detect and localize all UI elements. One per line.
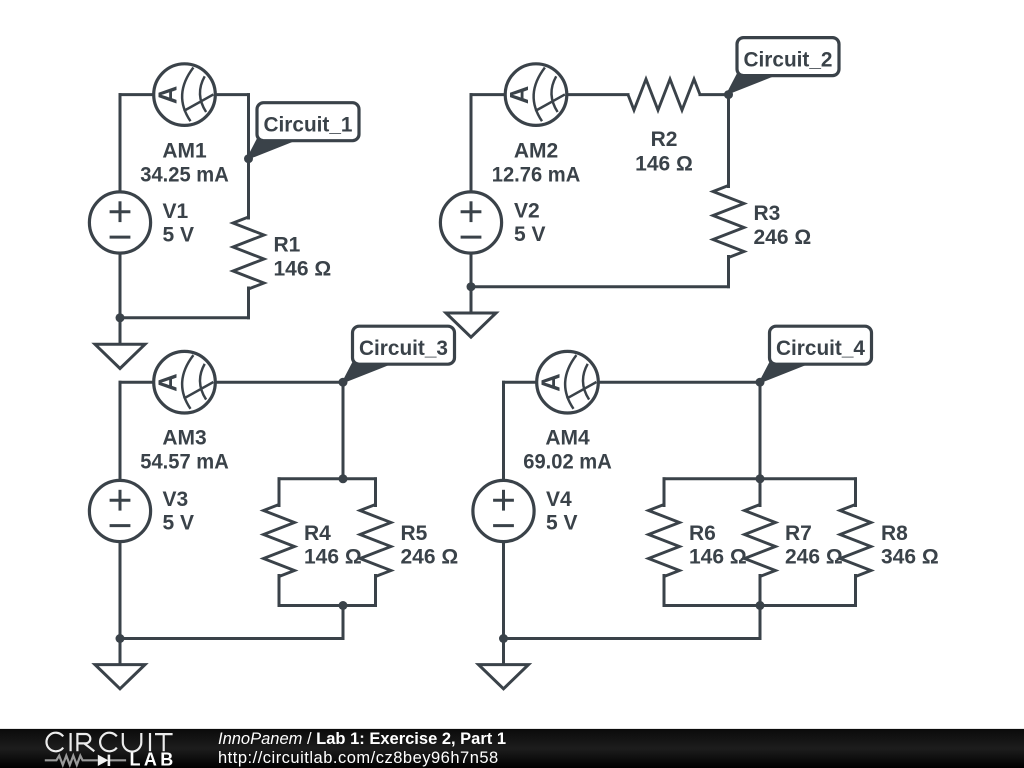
junction node bank top node <box>756 474 765 483</box>
svg-text:146 Ω: 146 Ω <box>304 546 362 569</box>
svg-text:Circuit_4: Circuit_4 <box>776 336 865 360</box>
net flag Circuit_1 <box>248 103 360 159</box>
diode symbol in logo <box>98 755 109 766</box>
wire R1 bottom lead <box>247 288 250 318</box>
wire R6 bottom lead <box>663 576 666 606</box>
svg-text:R2: R2 <box>651 128 678 151</box>
svg-text:R5: R5 <box>401 522 428 545</box>
svg-text:69.02 mA: 69.02 mA <box>523 451 612 474</box>
ground for circuit 3 <box>95 665 145 689</box>
svg-text:http://circuitlab.com/cz8bey96: http://circuitlab.com/cz8bey96h7n58 <box>218 749 499 767</box>
svg-text:V2: V2 <box>514 200 540 223</box>
svg-text:146 Ω: 146 Ω <box>635 153 693 176</box>
ammeter AM3 <box>154 351 216 413</box>
svg-text:InnoPanem / Lab 1: Exercise 2,: InnoPanem / Lab 1: Exercise 2, Part 1 <box>218 730 506 748</box>
wire left of circuit 1 <box>119 95 122 345</box>
svg-text:V1: V1 <box>163 200 189 223</box>
svg-text:A: A <box>537 373 565 391</box>
svg-text:146 Ω: 146 Ω <box>689 546 747 569</box>
wire bottom of circuit 4 <box>504 637 761 640</box>
svg-text:R1: R1 <box>274 234 301 257</box>
svg-text:246 Ω: 246 Ω <box>785 546 843 569</box>
svg-text:V4: V4 <box>546 488 572 511</box>
svg-text:R4: R4 <box>304 522 331 545</box>
wire left of circuit 3 <box>119 382 122 664</box>
voltage source V3 <box>89 480 150 541</box>
resistor R6 <box>649 505 680 577</box>
svg-text:AM2: AM2 <box>514 139 558 162</box>
wire top bracket of R6 R7 R8 <box>664 477 856 480</box>
wire node to R3 top <box>727 95 730 187</box>
resistor R5 <box>360 505 391 577</box>
junction node V1- to ground <box>116 313 125 322</box>
wire left of circuit 2 <box>470 95 473 313</box>
wire left of circuit 4 <box>502 382 505 664</box>
ground for circuit 1 <box>95 344 145 368</box>
svg-text:R6: R6 <box>689 522 716 545</box>
svg-text:146 Ω: 146 Ω <box>274 258 332 281</box>
svg-text:246 Ω: 246 Ω <box>401 546 459 569</box>
junction node Circuit_4 node <box>756 378 765 387</box>
wire top of circuit 1 <box>120 93 249 96</box>
resistor R1 <box>233 217 264 289</box>
svg-text:A: A <box>154 373 182 391</box>
voltage source V4 <box>473 480 534 541</box>
wire top of circuit 4 <box>504 381 761 384</box>
svg-text:5 V: 5 V <box>514 223 546 246</box>
junction node Circuit_3 node <box>339 378 348 387</box>
junction node Circuit_1 node <box>244 154 253 163</box>
svg-text:R8: R8 <box>881 522 908 545</box>
wire bank to bottom wire <box>759 606 762 639</box>
resistor R3 <box>713 186 744 258</box>
svg-text:Circuit_1: Circuit_1 <box>264 113 353 137</box>
svg-text:AM4: AM4 <box>545 427 590 450</box>
junction node bank bottom node <box>339 601 348 610</box>
ground for circuit 4 <box>479 665 529 689</box>
resistor R4 <box>264 505 295 577</box>
svg-text:AM3: AM3 <box>162 427 206 450</box>
svg-text:34.25 mA: 34.25 mA <box>140 163 229 186</box>
wire bottom of circuit 3 <box>120 637 343 640</box>
svg-text:LAB: LAB <box>130 749 177 768</box>
svg-text:5 V: 5 V <box>163 224 195 247</box>
wire top bracket of R4 R5 <box>279 477 376 480</box>
wire R4 top lead <box>278 479 281 506</box>
wire R5 bottom lead <box>374 576 377 606</box>
svg-text:12.76 mA: 12.76 mA <box>492 163 581 186</box>
wire R7 bottom lead <box>759 576 762 606</box>
wire R2 to node <box>700 93 729 96</box>
ground for circuit 2 <box>446 313 496 337</box>
wire bottom bracket of R6 R7 R8 <box>664 604 856 607</box>
svg-text:5 V: 5 V <box>546 512 578 535</box>
resistor R2 <box>628 79 700 110</box>
CircuitLab logo schematic doodle (resistor + diode) <box>45 756 126 765</box>
svg-text:Circuit_2: Circuit_2 <box>744 48 833 72</box>
junction node V3- to ground <box>116 634 125 643</box>
wire bottom of circuit 2 <box>471 285 729 288</box>
junction node Circuit_2 node <box>724 90 733 99</box>
ammeter AM2 <box>505 64 567 126</box>
net flag Circuit_3 <box>343 326 455 382</box>
wire R7 top lead <box>759 479 762 506</box>
svg-text:V3: V3 <box>163 488 189 511</box>
footer bar <box>0 729 1024 768</box>
wire node to parallel bank <box>759 382 762 479</box>
net flag Circuit_2 <box>728 38 840 94</box>
wire bottom bracket of R4 R5 <box>279 604 376 607</box>
wire top-left of circuit 2 <box>471 93 628 96</box>
voltage source V2 <box>440 192 501 253</box>
wire node to parallel bank <box>342 382 345 479</box>
svg-text:Circuit_3: Circuit_3 <box>359 336 448 360</box>
junction node bank top node <box>339 474 348 483</box>
wire R4 bottom lead <box>278 576 281 606</box>
wire R5 top lead <box>374 479 377 506</box>
junction node bank bottom node <box>756 601 765 610</box>
svg-text:R7: R7 <box>785 522 812 545</box>
net flag Circuit_4 <box>760 326 872 382</box>
wire R8 bottom lead <box>854 576 857 606</box>
ammeter AM1 <box>154 64 216 126</box>
svg-text:AM1: AM1 <box>162 139 207 162</box>
wire R8 top lead <box>854 479 857 506</box>
wire top of circuit 3 <box>120 381 343 384</box>
wire R6 top lead <box>663 479 666 506</box>
svg-text:A: A <box>506 86 534 104</box>
resistor R7 <box>745 505 776 577</box>
resistor R8 <box>840 505 871 577</box>
wire bottom of circuit 1 <box>120 316 249 319</box>
svg-text:54.57 mA: 54.57 mA <box>140 451 229 474</box>
voltage source V1 <box>89 192 150 253</box>
wire from node to R1 top <box>247 95 250 218</box>
svg-text:A: A <box>154 86 182 104</box>
svg-text:R3: R3 <box>754 202 781 225</box>
svg-text:346 Ω: 346 Ω <box>881 546 939 569</box>
svg-text:5 V: 5 V <box>163 512 195 535</box>
wire R3 bottom lead <box>727 257 730 287</box>
junction node V4- to ground <box>499 634 508 643</box>
wire bank to bottom wire <box>342 606 345 639</box>
CircuitLab logo word CIRCUIT <box>46 733 172 752</box>
ammeter AM4 <box>537 351 599 413</box>
junction node V2- to ground <box>467 282 476 291</box>
svg-text:246 Ω: 246 Ω <box>754 226 812 249</box>
